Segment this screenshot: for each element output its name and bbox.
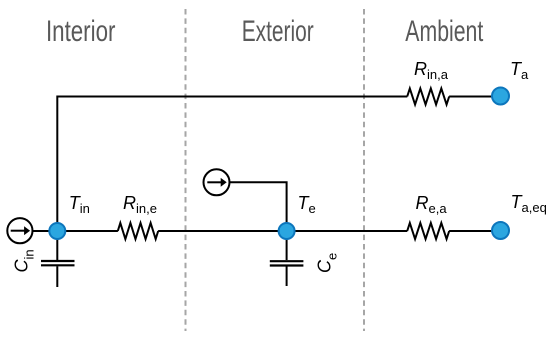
node T_a,eq xyxy=(492,222,509,239)
svg-text:Interior: Interior xyxy=(46,15,116,48)
capacitor C_in xyxy=(41,231,75,287)
boundary dashed line Interior/Exterior xyxy=(185,9,187,331)
wire I_in to node T_in xyxy=(33,230,51,232)
resistor R_e,a xyxy=(407,223,449,239)
wire R_in,a to node T_a xyxy=(449,96,500,98)
resistor R_in,a xyxy=(407,89,449,105)
wire R_in,e to node T_e xyxy=(158,230,287,232)
node T_a xyxy=(492,88,509,105)
current source I_in xyxy=(7,218,32,243)
wire node T_e to R_e,a xyxy=(287,230,408,232)
node T_e xyxy=(279,223,295,239)
boundary dashed line Exterior/Ambient xyxy=(363,9,365,331)
svg-text:Ambient: Ambient xyxy=(405,15,483,48)
wire R_e,a to node T_a,eq xyxy=(449,230,500,232)
current source I_e xyxy=(204,169,230,195)
capacitor C_e xyxy=(270,231,304,286)
wire I_e to node T_e xyxy=(230,182,287,231)
svg-text:Exterior: Exterior xyxy=(242,15,314,48)
node T_in xyxy=(49,223,65,239)
resistor R_in,e xyxy=(118,223,158,239)
wire node T_in to R_in,e xyxy=(57,230,118,232)
wire from node T_in up and across top to R_in,a xyxy=(57,97,407,232)
